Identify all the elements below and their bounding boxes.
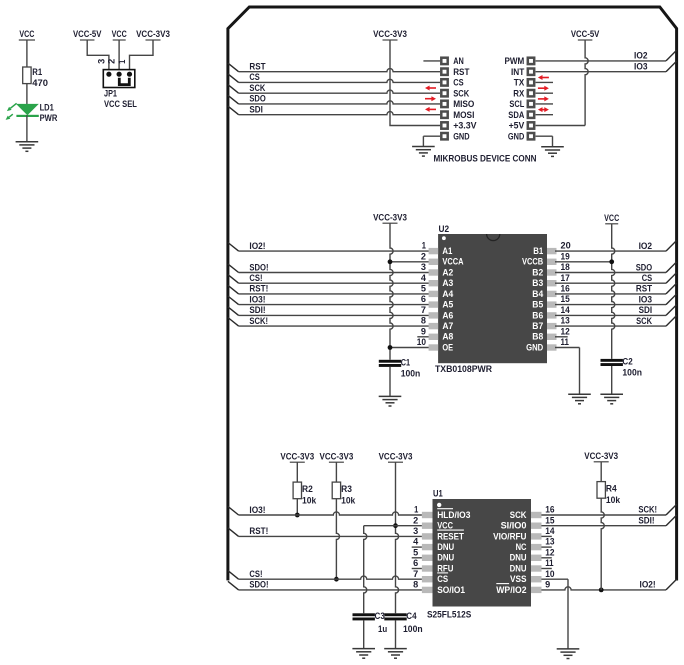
svg-text:TX: TX	[514, 78, 525, 88]
wire CS net to connector	[228, 74, 440, 83]
svg-text:VCC-3V3: VCC-3V3	[136, 29, 170, 39]
ground (C1)	[379, 396, 402, 406]
U2 pin stub 7	[429, 312, 439, 318]
pin name MOSI	[453, 110, 474, 120]
svg-text:B8: B8	[532, 331, 543, 342]
label RST! (U1)	[249, 526, 268, 536]
svg-text:CS: CS	[437, 573, 448, 584]
junction VCCB	[609, 259, 614, 264]
power flag VCC (LD1 branch)	[19, 29, 35, 40]
U2 pin number 11	[561, 337, 569, 347]
ground (C2)	[600, 394, 623, 404]
ground (left conn)	[412, 147, 435, 157]
svg-text:5: 5	[421, 284, 426, 294]
connector pad MOSI (left)	[441, 112, 447, 118]
U1 pin stub 16	[531, 512, 542, 518]
svg-text:IO3: IO3	[634, 62, 648, 72]
U1 CS overline	[437, 572, 448, 574]
label IO2 (net)	[634, 51, 648, 61]
wire RX stub	[536, 92, 553, 94]
wire SDI! net from U1 pin 15	[541, 515, 676, 526]
jumper JP1 body	[103, 70, 135, 88]
svg-text:100n: 100n	[622, 368, 642, 378]
U2 pin stub 8	[429, 323, 439, 329]
svg-text:GND: GND	[526, 341, 543, 352]
svg-text:NC: NC	[516, 541, 527, 552]
U1 pin number 8	[413, 580, 418, 590]
U2 pin number 14	[561, 305, 570, 315]
resistor R2	[293, 482, 301, 499]
svg-text:C2: C2	[622, 356, 632, 366]
pin name AN	[453, 56, 464, 66]
pin name GND	[453, 131, 470, 141]
label SDO	[249, 94, 265, 104]
wire SDI! net to U2	[228, 307, 430, 316]
svg-text:8: 8	[413, 580, 418, 590]
label SDI!	[249, 305, 265, 315]
label IO2! (U1)	[640, 580, 656, 590]
pin name MISO	[453, 99, 474, 109]
wire IO2! net from U1 pin 9	[541, 579, 676, 590]
board outline (module boundary)	[228, 7, 677, 581]
svg-text:100n: 100n	[403, 624, 423, 634]
wire C3 to ground	[363, 620, 365, 648]
U2 pin stub 3	[429, 269, 439, 275]
JP1 pin number 2	[107, 59, 117, 64]
data direction arrow (SCL)	[538, 96, 549, 101]
wire RST net to connector	[228, 63, 440, 72]
svg-text:10k: 10k	[341, 496, 356, 506]
svg-text:9: 9	[545, 580, 550, 590]
svg-text:11: 11	[561, 337, 569, 347]
svg-text:9: 9	[421, 326, 426, 336]
U1 pin name CS	[437, 573, 448, 584]
U2 pin name B3	[532, 277, 543, 288]
wire IO3! net to U1 pin 1	[228, 506, 422, 515]
svg-text:R3: R3	[341, 484, 352, 494]
svg-text:8: 8	[421, 316, 426, 326]
IC U2 body	[438, 234, 547, 363]
svg-text:20: 20	[561, 241, 571, 251]
svg-text:SDO!: SDO!	[249, 262, 268, 272]
label SDI (right)	[639, 305, 653, 315]
svg-text:IO2!: IO2!	[640, 580, 656, 590]
svg-text:SDA: SDA	[508, 110, 524, 120]
U2 pin stub 15	[547, 301, 557, 307]
label CS!	[249, 273, 262, 283]
label MIKROBUS DEVICE CONN	[434, 153, 537, 163]
junction OE	[388, 345, 393, 350]
junction U1 VCC	[393, 523, 398, 528]
svg-text:SO/IO1: SO/IO1	[437, 584, 465, 595]
label C4 100n	[403, 611, 423, 634]
ground (right conn)	[541, 147, 564, 157]
svg-text:VCC-3V3: VCC-3V3	[373, 213, 407, 223]
power flag VCC (U2)	[604, 213, 619, 224]
power flag VCC-3V3 (R3)	[320, 452, 354, 463]
U2 pin stub 14	[547, 312, 557, 318]
label IO3 (net)	[634, 62, 648, 72]
U1 pin name RESET	[437, 530, 464, 541]
power flag VCC-3V3 (U2)	[373, 213, 407, 224]
power flag VCC-3V3 (R2)	[280, 452, 314, 463]
svg-text:6: 6	[421, 294, 426, 304]
wire VCC-3V3 to JP1 pin 1	[130, 40, 154, 72]
U1 pin stub 15	[531, 523, 542, 529]
svg-text:DNU: DNU	[510, 552, 527, 563]
svg-text:SDI: SDI	[249, 105, 263, 115]
svg-text:6: 6	[413, 558, 418, 568]
wire RST! net to U1 pin 3	[228, 528, 422, 537]
svg-text:RST: RST	[453, 67, 470, 77]
label SDO!	[249, 262, 268, 272]
wire SDO! net to U1 pin 8	[228, 581, 422, 590]
label CS! (U1)	[249, 569, 262, 579]
JP1 jumper bracket	[119, 78, 129, 85]
U1 pin stub 11	[531, 565, 542, 571]
data direction arrow (RX)	[538, 86, 549, 91]
svg-text:TXB0108PWR: TXB0108PWR	[435, 364, 493, 374]
wire SDO net from U2	[555, 262, 677, 273]
wire NC stub pin 14	[541, 535, 551, 537]
U2 pin name A2	[442, 266, 453, 277]
capacitor C2	[601, 359, 623, 366]
svg-text:SCK: SCK	[636, 316, 652, 326]
label R3 10k	[341, 484, 356, 505]
label IO3 (right)	[639, 294, 653, 304]
U1 pin stub 12	[531, 555, 542, 561]
U2 pin name B2	[532, 266, 543, 277]
junction R2-IO3!	[295, 513, 300, 518]
svg-text:DNU: DNU	[437, 541, 454, 552]
label CS	[249, 72, 259, 82]
svg-text:SDO: SDO	[249, 94, 265, 104]
U1 pin stub 1	[422, 512, 433, 518]
label C2 100n	[622, 356, 642, 377]
U1 pin name RFU	[437, 562, 453, 573]
ground (C4)	[384, 649, 407, 659]
wire VCC-3V3 to R4	[600, 462, 602, 482]
svg-text:RST: RST	[249, 62, 266, 72]
data direction arrow (SCK in)	[425, 86, 436, 91]
capacitor C1	[379, 360, 401, 367]
svg-text:16: 16	[545, 505, 554, 515]
U1 pin stub 4	[422, 544, 433, 550]
wire LD1 to ground	[26, 115, 28, 141]
wire IO3! net to U2	[228, 296, 430, 305]
wire R2 to IO3! net	[296, 499, 298, 515]
wire TX stub	[536, 81, 553, 83]
U2 pin stub 13	[547, 323, 557, 329]
svg-text:10k: 10k	[302, 496, 317, 506]
U2 pin number 10	[417, 337, 426, 347]
connector pad MISO (left)	[441, 101, 447, 107]
U2 pin number 3	[421, 262, 426, 272]
pin name +5V	[509, 121, 525, 131]
wire VCC to JP1 pin 2	[118, 40, 120, 72]
connector pad GND (right)	[528, 133, 534, 139]
wire C4 to ground	[395, 620, 397, 648]
ground (LD1)	[16, 142, 39, 152]
wire DNU stub pin 5	[412, 557, 422, 559]
connector pad CS (left)	[441, 79, 447, 85]
U2 pin number 8	[421, 316, 426, 326]
svg-text:A7: A7	[442, 320, 453, 331]
power flag VCC (JP1)	[112, 29, 127, 40]
U2 pin stub 20	[547, 248, 557, 254]
wire RFU stub pin 6	[412, 568, 422, 570]
wire VCC-3V3 to R3	[335, 462, 337, 482]
ground (C3)	[352, 649, 375, 659]
ground (VSS)	[557, 649, 580, 659]
svg-text:SCK: SCK	[510, 509, 527, 520]
wire GND stub (left conn)	[423, 136, 440, 146]
wire SDI net to connector	[228, 106, 440, 115]
label CS (right)	[642, 273, 652, 283]
connector pad AN (left)	[441, 58, 447, 64]
svg-text:VCC-5V: VCC-5V	[571, 29, 600, 39]
svg-text:CS: CS	[249, 72, 259, 82]
svg-text:12: 12	[545, 547, 554, 557]
power flag VCC-3V3 (JP1)	[136, 29, 170, 40]
svg-text:C3: C3	[375, 611, 385, 621]
U1 pin number 6	[413, 558, 418, 568]
svg-text:HLD/IO3: HLD/IO3	[437, 509, 470, 520]
svg-text:4: 4	[421, 273, 426, 283]
U2 pin name B4	[532, 288, 544, 299]
U2 pin number 4	[421, 273, 426, 283]
U2 pin stub 11	[547, 344, 557, 350]
svg-text:AN: AN	[453, 56, 464, 66]
connector pad +3.3V (left)	[441, 122, 447, 128]
connector pad GND (left)	[441, 133, 447, 139]
svg-text:14: 14	[561, 305, 570, 315]
svg-text:10: 10	[417, 337, 426, 347]
svg-text:10: 10	[545, 569, 554, 579]
svg-text:RST!: RST!	[249, 284, 268, 294]
svg-text:10k: 10k	[606, 495, 621, 505]
wire IO2! net to U2	[228, 243, 430, 252]
U1 pin number 11	[545, 558, 553, 568]
wire SDO! net to U2	[228, 264, 430, 273]
data direction arrow (MISO out)	[425, 96, 436, 101]
svg-text:11: 11	[545, 558, 553, 568]
U2 pin name A7	[442, 320, 453, 331]
svg-text:3: 3	[413, 526, 418, 536]
U1 pin stub 9	[531, 587, 542, 593]
U2 pin name B6	[532, 309, 543, 320]
wire C1 to ground	[389, 367, 391, 396]
U1 pin number 10	[545, 569, 554, 579]
wire PWM to IO2	[536, 50, 677, 61]
svg-text:CS: CS	[642, 273, 652, 283]
U2 pin number 16	[561, 284, 570, 294]
svg-text:VCC: VCC	[437, 520, 453, 531]
wire DNU stub pin 12	[541, 557, 551, 559]
svg-text:MISO: MISO	[453, 99, 474, 109]
wire AN stub	[423, 60, 440, 62]
U1 pin name HLD/IO3	[437, 509, 470, 520]
label S25FL512S	[427, 610, 471, 620]
svg-text:A4: A4	[442, 288, 454, 299]
svg-text:7: 7	[421, 305, 426, 315]
svg-text:15: 15	[545, 515, 554, 525]
U2 pin number 6	[421, 294, 426, 304]
U2 pin name VCCA	[442, 256, 463, 267]
svg-text:B4: B4	[532, 288, 544, 299]
svg-text:VCCB: VCCB	[522, 256, 543, 267]
U2 pin stub 12	[547, 334, 557, 340]
svg-text:RST: RST	[636, 284, 653, 294]
wire R4 to IO2! net	[601, 498, 604, 590]
label JP1	[104, 88, 117, 98]
U2 pin stub 6	[429, 301, 439, 307]
power flag VCC-3V3 (U1 VCC)	[379, 452, 413, 463]
wire CS net from U2	[555, 273, 677, 284]
wire VCC-5V to JP1 pin 3	[87, 40, 109, 72]
connector pad +5V (right)	[528, 122, 534, 128]
label R2 10k	[302, 484, 317, 505]
U1 HLD overline	[437, 508, 453, 510]
svg-text:GND: GND	[508, 131, 525, 141]
label RST!	[249, 284, 268, 294]
svg-text:1: 1	[422, 241, 426, 251]
connector pad RST (left)	[441, 69, 447, 75]
resistor R4	[597, 482, 605, 499]
wire B8 stub (pin 12 nc)	[555, 336, 568, 338]
svg-text:12: 12	[561, 326, 570, 336]
data direction arrow (TX)	[538, 75, 549, 80]
svg-text:B7: B7	[532, 320, 543, 331]
junction VCCA	[388, 259, 393, 264]
wire SCK net from U2	[555, 316, 677, 327]
svg-text:100n: 100n	[401, 368, 421, 378]
U2 pin name B8	[532, 331, 543, 342]
power flag VCC-5V (mikrobus)	[571, 29, 600, 40]
U2 pin stub 1	[429, 248, 439, 254]
svg-text:MOSI: MOSI	[453, 110, 474, 120]
svg-text:SCK: SCK	[249, 83, 265, 93]
U2 pin number 13	[561, 316, 570, 326]
label TXB0108PWR	[435, 364, 493, 374]
svg-text:SDI!: SDI!	[249, 305, 265, 315]
label SDO (right)	[636, 262, 652, 272]
U2 pin number 19	[561, 251, 570, 261]
label SDO! (U1)	[249, 580, 268, 590]
U2 pin name A5	[442, 299, 453, 310]
svg-text:A8: A8	[442, 331, 453, 342]
U1 pin number 12	[545, 547, 554, 557]
svg-text:GND: GND	[453, 131, 470, 141]
U2 pin stub 10	[429, 344, 439, 350]
connector pad PWM (right)	[528, 58, 534, 64]
svg-text:13: 13	[545, 537, 554, 547]
svg-text:RFU: RFU	[437, 562, 453, 573]
svg-text:RST!: RST!	[249, 526, 268, 536]
U2 pin name A8	[442, 331, 453, 342]
resistor R3	[332, 482, 340, 499]
wire DNU stub pin 4	[412, 546, 422, 548]
U1 pin number 16	[545, 505, 554, 515]
connector pad SDA (right)	[528, 112, 534, 118]
svg-text:18: 18	[561, 262, 570, 272]
svg-text:1: 1	[414, 505, 418, 515]
svg-text:5: 5	[413, 547, 418, 557]
label SCK	[249, 83, 265, 93]
U1 pin name DNU	[510, 562, 527, 573]
svg-text:A6: A6	[442, 309, 453, 320]
wire DNU stub pin 11	[541, 568, 551, 570]
svg-text:SDO!: SDO!	[249, 580, 268, 590]
svg-text:SCK: SCK	[453, 88, 469, 98]
svg-text:VIO/RFU: VIO/RFU	[493, 530, 527, 541]
capacitor C4	[384, 613, 406, 620]
U2 pin stub 19	[547, 259, 557, 265]
U1 pin name SI/IO0	[501, 520, 527, 531]
label SDI	[249, 105, 263, 115]
connector pad INT (right)	[528, 69, 534, 75]
U1 pin number 14	[545, 526, 554, 536]
wire SDO net to connector	[228, 95, 440, 104]
U1 pin name SO/IO1	[437, 584, 465, 595]
svg-text:JP1: JP1	[104, 88, 117, 98]
JP1 pin 2 circle	[117, 72, 122, 77]
U1 pin name WP/IO2	[496, 584, 526, 595]
svg-text:15: 15	[561, 294, 570, 304]
pin name CS	[453, 78, 463, 88]
wire SCK! net from U1 pin 16	[541, 504, 676, 515]
svg-text:SCK!: SCK!	[249, 316, 268, 326]
wire R1 to LD1	[26, 84, 28, 105]
wire IO2 net from U2	[555, 241, 677, 252]
wire SDI net from U2	[555, 305, 677, 316]
svg-text:VCC: VCC	[604, 213, 619, 223]
wire VCC rail U2 (VCCB/C2)	[555, 224, 615, 359]
U2 pin number 20	[561, 241, 571, 251]
wire VCC to R1	[26, 40, 28, 67]
label SCK!	[638, 505, 657, 515]
wire R3 to CS! net	[336, 499, 339, 580]
U2 pin stub 2	[429, 259, 439, 265]
power flag VCC-5V (JP1)	[73, 29, 102, 40]
U1 pin name DNU	[437, 552, 454, 563]
wire VCC-3V3 to +3.3V pin	[390, 40, 440, 126]
svg-text:3: 3	[96, 59, 106, 64]
svg-text:SCL: SCL	[509, 99, 524, 109]
U1 RESET overline	[437, 529, 464, 531]
U2 pin number 18	[561, 262, 570, 272]
svg-text:19: 19	[561, 251, 570, 261]
U2 pin name GND	[526, 341, 543, 352]
U1 pin number 3	[413, 526, 418, 536]
U1 pin name DNU	[437, 541, 454, 552]
svg-text:7: 7	[413, 569, 418, 579]
U2 pin name B1	[533, 245, 543, 256]
svg-text:LD1: LD1	[40, 103, 54, 113]
U2 pin name A6	[442, 309, 453, 320]
IC U1 body	[433, 499, 532, 607]
U2 pin name VCCB	[522, 256, 543, 267]
svg-text:CS!: CS!	[249, 569, 262, 579]
pin name RST	[453, 67, 470, 77]
junction R4-IO2!	[599, 588, 604, 593]
svg-text:VCCA: VCCA	[442, 256, 463, 267]
svg-text:14: 14	[545, 526, 554, 536]
U1 pin stub 14	[531, 533, 542, 539]
connector pad SCK (left)	[441, 90, 447, 96]
svg-text:U1: U1	[433, 489, 443, 499]
svg-text:470: 470	[32, 78, 48, 88]
